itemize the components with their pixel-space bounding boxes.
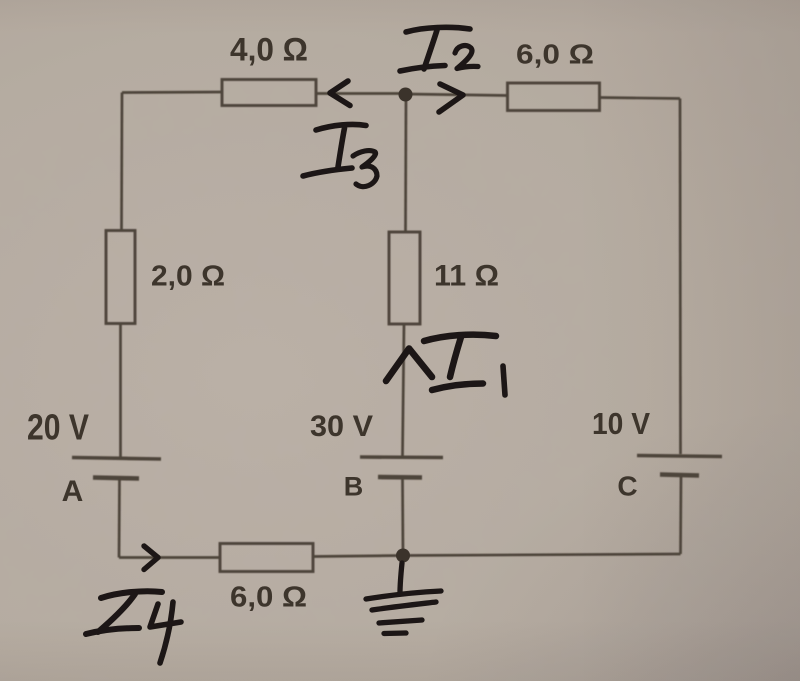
battery A long plate bbox=[72, 458, 161, 460]
node top (junction dot) bbox=[399, 88, 413, 102]
handwritten arrow I1 (points up) bbox=[386, 349, 432, 382]
wire 4ohm to top node bbox=[316, 92, 406, 95]
wire top node down to 11ohm bbox=[404, 94, 407, 233]
wire bottom right segment bbox=[403, 554, 681, 556]
resistor R 6,0 ohm (bottom) bbox=[220, 544, 313, 572]
handwritten arrow I3 (points left) bbox=[330, 81, 350, 106]
battery B short plate bbox=[378, 475, 422, 480]
wire right vertical bbox=[679, 99, 682, 455]
battery A short plate bbox=[93, 478, 139, 479]
ground symbol (hand-drawn) bbox=[366, 563, 441, 634]
wire 6ohm to top-right corner bbox=[600, 98, 681, 99]
wire 11ohm to battery B bbox=[403, 324, 405, 456]
handwritten current I2 label bbox=[400, 27, 478, 71]
wire top-left horizontal bbox=[122, 91, 222, 94]
svg-text:6,0 Ω: 6,0 Ω bbox=[516, 39, 594, 70]
handwritten current I3 label bbox=[303, 124, 377, 186]
svg-text:4,0 Ω: 4,0 Ω bbox=[230, 32, 308, 68]
svg-text:10 V: 10 V bbox=[592, 407, 651, 441]
wire left-bottom vertical bbox=[118, 478, 121, 558]
svg-text:B: B bbox=[344, 472, 364, 502]
node bottom (junction dot) bbox=[396, 549, 410, 563]
resistor R 2,0 ohm (left) bbox=[106, 231, 135, 324]
wire battery C to bottom-right corner bbox=[679, 476, 682, 554]
battery C short plate bbox=[660, 475, 699, 476]
resistor R 4,0 ohm (top-left) bbox=[222, 80, 316, 106]
svg-text:20 V: 20 V bbox=[27, 407, 89, 448]
handwritten current I4 label bbox=[86, 591, 181, 663]
wire battery A to 2ohm bbox=[119, 324, 122, 457]
wire 2ohm to top-left corner bbox=[120, 93, 123, 231]
handwritten arrow I2 (points right) bbox=[439, 84, 463, 112]
wire bottom middle segment bbox=[313, 556, 403, 557]
wire bottom left segment bbox=[119, 556, 220, 559]
resistor R 11 ohm (middle) bbox=[389, 232, 420, 324]
wire top node to 6ohm bbox=[406, 94, 508, 96]
handwritten arrow I4 (points right) bbox=[144, 546, 158, 570]
battery C long plate bbox=[637, 456, 722, 457]
svg-text:C: C bbox=[617, 471, 637, 502]
svg-text:30 V: 30 V bbox=[310, 410, 373, 443]
svg-text:6,0 Ω: 6,0 Ω bbox=[230, 582, 307, 614]
resistor R 6,0 ohm (top-right) bbox=[508, 83, 600, 111]
battery B long plate bbox=[360, 455, 443, 459]
svg-text:A: A bbox=[62, 475, 84, 508]
svg-text:2,0 Ω: 2,0 Ω bbox=[151, 261, 225, 293]
handwritten current I1 label bbox=[424, 335, 505, 395]
wire battery B to bottom node bbox=[401, 479, 404, 556]
svg-text:11 Ω: 11 Ω bbox=[434, 260, 499, 293]
